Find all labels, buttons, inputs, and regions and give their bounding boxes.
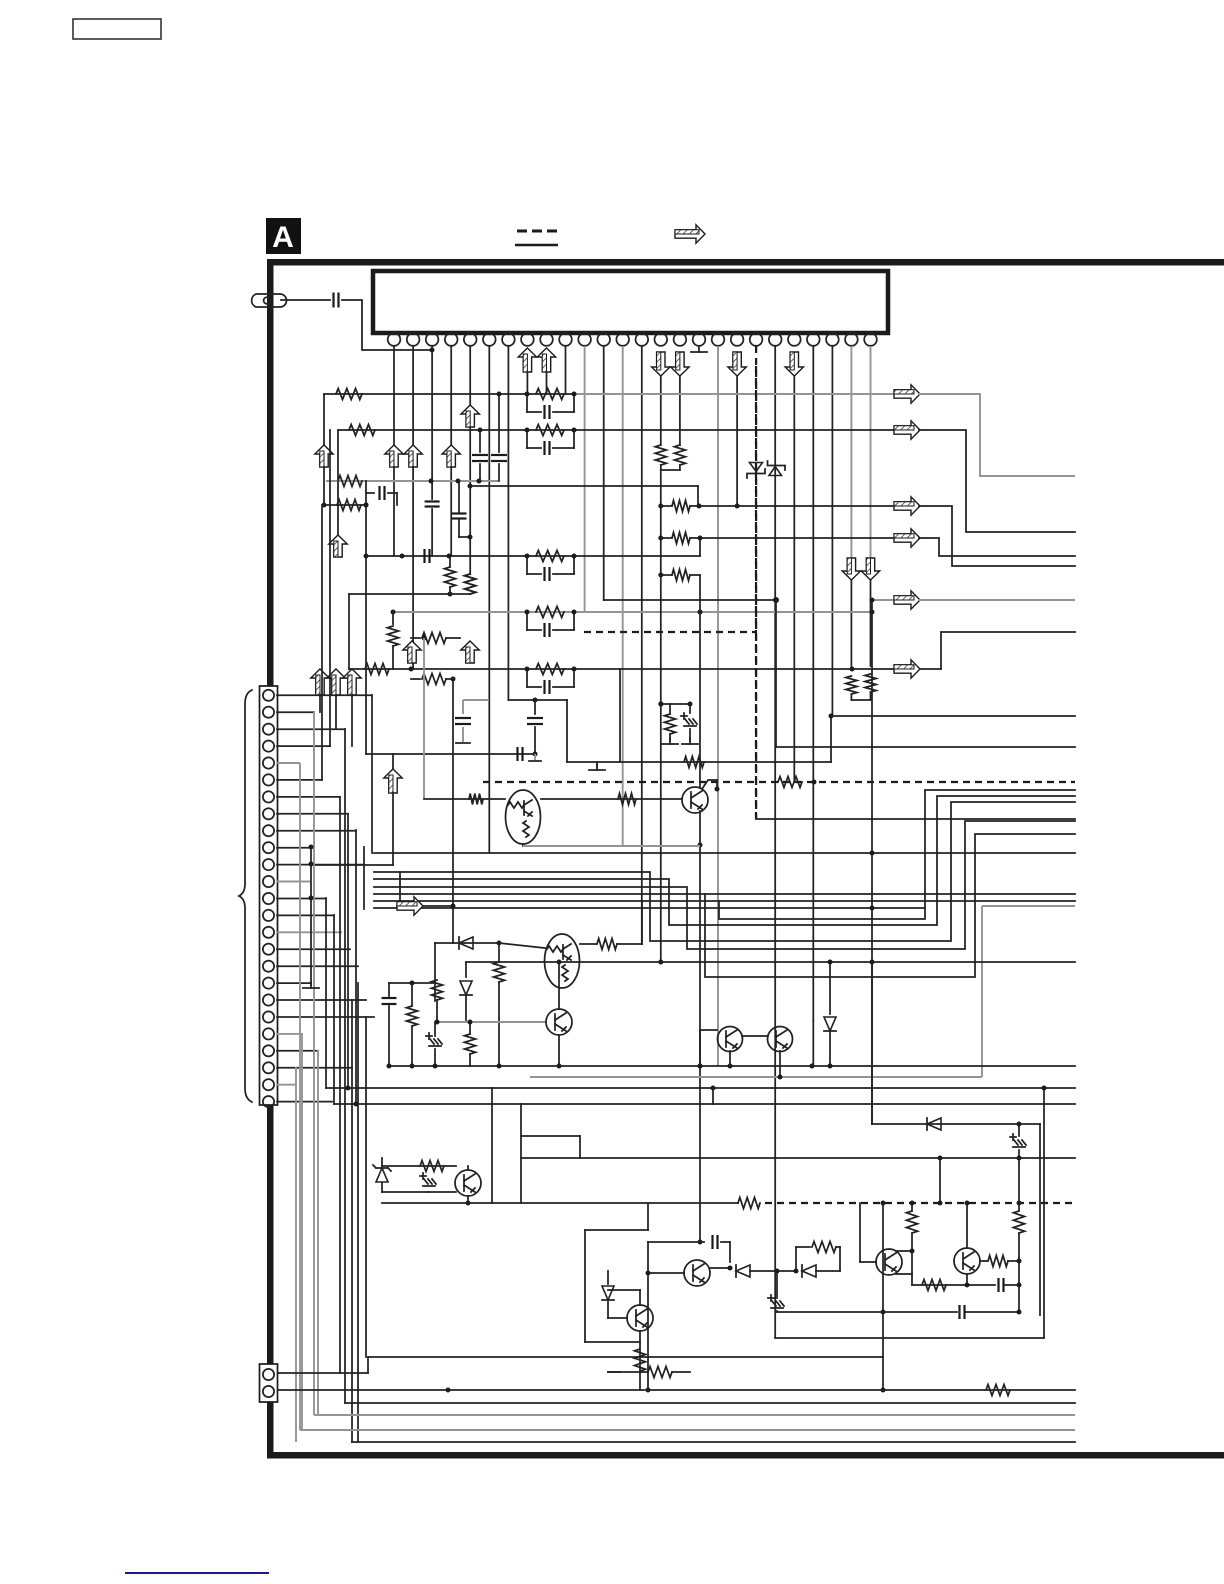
wire pin19 lower <box>736 376 738 506</box>
wire row y1442 <box>352 1441 1075 1443</box>
wire pin10 down <box>565 346 567 394</box>
wire spine x366 <box>365 481 367 754</box>
resistor R-d on row y505 <box>337 500 361 511</box>
wire pin1 down <box>393 346 395 445</box>
zener D-e x382 <box>381 1158 383 1166</box>
wire pin25 down <box>850 346 852 558</box>
wire to Q8 base <box>429 1191 456 1193</box>
resistor-capacitor pair row556 <box>526 556 528 574</box>
wire pin9 lower <box>546 372 548 394</box>
wire Q10 emitter <box>639 1331 641 1342</box>
capacitor C-k row y1312 <box>883 1311 957 1313</box>
signal arrow right y906 mid <box>399 872 401 906</box>
wire Q6 emitter <box>896 1273 912 1275</box>
wire y669 riser to y632 edge <box>941 632 1075 669</box>
wire cap bottom bar <box>456 742 470 744</box>
wire row y962 <box>700 961 1075 963</box>
wire Q10 top <box>639 1290 641 1305</box>
capacitor C-f on row y754 <box>516 747 518 761</box>
wire R-e bottom lead <box>449 587 451 594</box>
wire row y1312 mid <box>777 1311 883 1313</box>
wire row y669 <box>349 668 941 670</box>
resistor R-q Q2 out <box>597 939 617 950</box>
wire bus y1066 <box>389 1065 1075 1067</box>
wire row y1124 <box>872 1123 1040 1125</box>
zener diode D-z1 on dashed line <box>750 463 763 472</box>
thick wire y700 from pin7 <box>508 699 567 701</box>
capacitor C-m <box>648 1241 704 1243</box>
legend dashed-line sample <box>517 230 557 233</box>
wire Q6 base <box>860 1261 876 1263</box>
wire Q2 base <box>499 943 545 948</box>
wire row y1136 <box>521 1135 580 1137</box>
left connector CN1 pin circles <box>263 690 274 1107</box>
wire pin4 lower <box>450 467 452 556</box>
signal arrow up pin2 line <box>404 445 422 467</box>
wire x812 to bus <box>812 1021 814 1066</box>
resistor R-z x640 <box>635 1349 646 1371</box>
resistor ladder row y538 <box>658 536 663 541</box>
wire pin1 lower <box>393 467 395 556</box>
wire base row y799 left <box>424 798 505 800</box>
wire fan riser x340 down <box>339 797 341 1373</box>
wire Q10 down <box>639 1342 641 1372</box>
wire row y1403 <box>345 1402 1075 1404</box>
diode D-h x608 <box>607 1271 609 1284</box>
wire row y943 <box>453 942 499 944</box>
diode D-a row y943 <box>459 937 473 949</box>
diode D-c x830 <box>829 962 831 1014</box>
wire Q7 emitter <box>966 1274 968 1285</box>
resistor R-ab row y1390 <box>986 1385 1010 1396</box>
wire fan riser x296 <box>295 1067 297 1442</box>
wire Q3 top <box>558 962 560 1009</box>
wire gray row y481 <box>326 480 499 482</box>
wire pin3 lower <box>431 509 433 556</box>
resistor R-x <box>796 1246 810 1248</box>
wire pin5 mid <box>469 427 471 574</box>
wire Q8 emitter <box>467 1196 469 1203</box>
wire row y754 <box>366 753 535 755</box>
wire row y1104 <box>334 1103 1075 1105</box>
wire x642 riser <box>641 901 643 944</box>
wire pin26 down <box>870 346 872 558</box>
wire row y1373 <box>277 1372 368 1374</box>
wire y506 elbow to edge <box>919 506 1075 566</box>
wire pin3 down <box>431 346 433 499</box>
resistor R-m1 base row <box>469 794 483 805</box>
wire Q4 base from bus <box>700 1029 717 1031</box>
wire x580 <box>579 1136 581 1158</box>
transistor Q3 <box>546 1009 572 1035</box>
bottom connector CN2 pins <box>263 1369 274 1397</box>
wire fan riser x352 down <box>351 1000 353 1442</box>
wire pin6 down <box>488 346 490 852</box>
wire pin18 down <box>717 346 719 1066</box>
resistor on pin25 line <box>846 676 857 694</box>
wire y430 to edge <box>919 430 1075 532</box>
wire fan riser x358 down <box>357 983 359 1442</box>
thick wire x776 vertical <box>775 600 777 747</box>
wire fan riser x318 <box>317 1050 319 1416</box>
wire fan riser x334 down <box>333 915 335 1104</box>
wire pin25 mid <box>850 580 852 668</box>
capacitor C-g x389 <box>388 983 390 996</box>
wire Q2 out <box>580 943 596 945</box>
signal arrow up x324 <box>315 445 333 467</box>
signal arrow right y669 <box>894 660 920 678</box>
digital transistor Q2 (oval) <box>545 934 580 988</box>
electrolytic capacitor x690 <box>681 713 697 726</box>
wire base row y799 right <box>541 798 682 800</box>
wire R-z foot <box>639 1371 641 1390</box>
wire fan riser x366 down <box>365 1017 367 1357</box>
fan risers up <box>371 695 373 853</box>
wire fan riser x330 up <box>329 430 331 746</box>
mini cluster R+C to ground <box>661 703 690 705</box>
transistor Q8 <box>455 1170 481 1196</box>
capacitor chain x535 <box>534 700 536 714</box>
svg-text:A: A <box>272 221 294 254</box>
transistor Q7 <box>954 1248 980 1274</box>
wire x368 riser <box>367 1357 369 1373</box>
input jack J1 <box>252 294 287 307</box>
signal arrow down pin16 <box>671 352 689 376</box>
wire row y1285 <box>912 1284 995 1286</box>
ground fan x311 <box>310 982 312 988</box>
wire chain1 y872-941-802 <box>374 802 1075 941</box>
wire oval bottom lead <box>522 844 524 846</box>
wire ecap bottom <box>689 729 691 741</box>
wire gray x982 <box>981 906 983 1077</box>
wire row y1390 <box>277 1389 1075 1391</box>
electrolytic C-l x429 <box>420 1173 436 1186</box>
wire gray row y846 <box>523 845 700 847</box>
wire pin16 mid <box>679 376 681 445</box>
wire pin26 mid <box>870 580 872 666</box>
wire pin8 lower <box>526 372 528 394</box>
wire x324 lower <box>323 467 325 505</box>
resistor R-b on bus y430 <box>349 425 375 436</box>
wire Q8 top <box>467 1166 469 1170</box>
wire x756 corner to right <box>756 818 1075 820</box>
wire row y853 <box>374 852 1075 854</box>
wire pin24 down <box>831 346 833 716</box>
resistor-capacitor pair row612 <box>526 612 528 630</box>
ground on y762 <box>596 762 598 767</box>
IC block (main jungle IC) <box>373 271 888 333</box>
transistor Q9 <box>684 1260 710 1286</box>
wire Q9 base <box>648 1272 684 1274</box>
wire pin12 down (thick) <box>603 346 605 600</box>
wire pin20 dashed <box>755 346 757 819</box>
resistor-capacitor pair row430 <box>526 430 528 448</box>
wire left vert x324 <box>323 394 325 445</box>
wire row y1088 <box>326 1087 1075 1089</box>
transistor Q10 <box>627 1305 653 1331</box>
wire x872 segment <box>871 600 873 1124</box>
page border frame (left rule) <box>267 259 274 1458</box>
legend solid underline <box>515 244 558 247</box>
wire arrow1 stub <box>319 695 321 712</box>
signal arrow up x393 lower <box>392 754 394 770</box>
wire y394 to edge <box>919 394 1075 476</box>
lower left cluster <box>382 1165 456 1167</box>
wire R-f join <box>450 593 470 595</box>
wire C-j lead <box>1005 1284 1019 1286</box>
capacitor C-j row y1285 <box>997 1278 999 1292</box>
left connector pin wires <box>277 694 372 696</box>
wire pin16 join <box>679 465 681 470</box>
three up arrows above connector <box>311 669 329 695</box>
wire pin13 down <box>622 346 624 846</box>
resistor R-n x499 <box>494 962 505 982</box>
wire gray y600 from x872 <box>872 599 896 601</box>
capacitor on pin3 line <box>425 500 440 502</box>
wire x1040 drop <box>1039 1124 1041 1315</box>
wire Q7 top <box>966 1203 968 1248</box>
wire row y1430 gray <box>300 1429 1075 1431</box>
diode D-d row y1124 <box>927 1118 941 1130</box>
zener diode D-z2 on thick line <box>769 467 782 476</box>
wire y716 to edge <box>831 715 1075 717</box>
page border frame (top rule) <box>267 259 1224 266</box>
transistor Q4 <box>718 1027 743 1052</box>
wire gray row y612 <box>393 611 872 613</box>
resistor R-s x912 <box>911 1203 913 1210</box>
resistor R-o x412 <box>411 983 413 1006</box>
wire x872 extension <box>871 962 873 1124</box>
thick wire y600 horizontal <box>604 599 776 601</box>
resistor R-m2 base Q1 <box>618 794 636 805</box>
wire x567 drop <box>566 700 568 762</box>
wire pin2 lower <box>412 467 414 669</box>
wire Q4 emitter <box>729 1051 731 1066</box>
dashed wire row y632 <box>584 631 756 633</box>
wire chain2 y879-925-796 <box>374 796 1075 925</box>
signal arrow up x412 <box>403 641 421 663</box>
wire row y486 <box>470 485 698 487</box>
wire left vert x338 <box>337 430 339 535</box>
wire y538 elbow to edge <box>919 538 1075 556</box>
wire chain5 y901-919-790 <box>374 900 1075 902</box>
wire row y1158 <box>521 1157 1075 1159</box>
signal arrow right y394 <box>894 385 920 403</box>
wire bus y394 gray part <box>574 393 900 395</box>
wire pin5 down <box>469 346 471 405</box>
wire x700 long <box>699 575 701 788</box>
dashed wire column x756 lower <box>755 632 757 819</box>
bottom connector CN2 body <box>260 1364 278 1402</box>
resistor on pin5 line <box>465 574 476 594</box>
wire arrow2 stub <box>335 695 337 729</box>
electrolytic C-n x777 <box>768 1295 784 1308</box>
signal arrow right y600 <box>894 591 920 609</box>
wire pin4 down <box>450 346 452 445</box>
resistor R-y x648 upper <box>647 1203 649 1230</box>
wire pin11 down <box>584 346 586 612</box>
transistor Q5 <box>768 1027 793 1052</box>
wire y506 to arrow <box>699 505 896 507</box>
wire fan riser x364 down <box>363 847 365 909</box>
wire x831 riser <box>830 716 832 762</box>
wire bus y430 <box>338 429 900 431</box>
resistor R-a on bus y394 <box>336 389 362 400</box>
resistor on pin16 line <box>674 445 685 465</box>
wire pin7 down (thick) <box>507 346 509 700</box>
wire fan riser x311 <box>310 847 312 985</box>
diode D-g <box>802 1265 816 1277</box>
top-left revision box <box>73 19 161 39</box>
transistor Q1 <box>682 787 708 813</box>
wire arrow3 stub <box>351 695 353 746</box>
wire Q3 emitter <box>558 1035 560 1066</box>
wire fan riser x356 down <box>355 830 357 1104</box>
wire Q9 collector-diode <box>710 1267 730 1269</box>
signal arrow down pin26 <box>861 558 879 580</box>
wire pin21 down (thick) <box>774 346 776 1338</box>
left connector CN1 brace <box>239 690 252 1102</box>
legend signal-flow arrow <box>675 225 705 243</box>
wire x435 drop <box>435 942 453 944</box>
wire bar x535 <box>529 760 541 762</box>
thick wire y1338 horizontal <box>775 1337 1044 1339</box>
signal arrow right y538 <box>894 529 920 547</box>
wire x700 riser 538-556 <box>699 538 701 556</box>
dashed wire row y782 <box>483 781 1075 783</box>
resistor-capacitor pair row669 <box>526 669 528 687</box>
wire y600 to edge <box>919 599 1075 601</box>
resistor R-v row y1285 <box>922 1280 946 1291</box>
footer blue rule <box>125 1572 269 1574</box>
signal arrow up pin8 <box>518 348 536 372</box>
wire chain4 y894-977-834 <box>374 893 1075 895</box>
thick wire x1044 vertical <box>1043 1088 1045 1338</box>
signal arrow up x470 <box>461 641 479 663</box>
resistor R-t x1019 <box>1018 1158 1020 1203</box>
signal arrow right y506 <box>894 497 920 515</box>
capacitor gray x463 <box>463 699 489 701</box>
wire bus y394 <box>324 393 574 395</box>
wire x453 long <box>452 679 454 943</box>
resistor R-l on y762 <box>684 757 704 768</box>
row y638 resistor R-h <box>411 637 420 639</box>
wire row y983 <box>389 982 435 984</box>
transistor Q6 <box>876 1249 902 1275</box>
wire y486 elbow down <box>697 486 699 506</box>
capacitor C-d row y493 <box>366 492 374 494</box>
wire joining pin15-16 resistors <box>661 469 680 471</box>
wire gray row y1022 <box>435 1021 546 1023</box>
wire row y1415 gray <box>314 1414 1075 1416</box>
signal arrow right y430 <box>894 421 920 439</box>
wire y762 row <box>567 761 831 763</box>
diode D-b x466 <box>465 962 467 977</box>
section label A (black box) <box>266 218 301 254</box>
wire R-q to riser <box>617 943 642 945</box>
resistor R-e x450 <box>445 567 456 587</box>
wire pin22 lower <box>793 376 795 782</box>
wire fan riser x300 <box>299 763 301 1430</box>
signal arrow up x338 <box>329 535 347 557</box>
signal arrow up pin5 line <box>461 405 479 427</box>
digital transistor Q2b (oval) <box>506 790 541 844</box>
diode D-f <box>736 1265 750 1277</box>
wire x535 stub <box>534 754 536 760</box>
wire x883 <box>882 1203 884 1390</box>
resistor ladder row y575 <box>658 573 663 578</box>
signal arrow down pin22 <box>785 352 803 376</box>
wire gray row y906 <box>982 905 1075 907</box>
wire row y556 <box>366 555 700 557</box>
resistor R-f x470 <box>465 574 476 594</box>
wire Q1 collector <box>702 780 717 789</box>
signal arrow down pin15 <box>652 352 670 376</box>
signal arrow down pin25 <box>842 558 860 580</box>
resistor on pin15 line <box>655 445 666 465</box>
wire chain3 y887-949-821 <box>374 821 1075 949</box>
dashed wire row y1203 <box>765 1202 1075 1204</box>
resistor R-k on dashed row <box>778 777 802 788</box>
wire R-e top lead <box>449 556 451 567</box>
wire row y1357 <box>368 1356 883 1358</box>
resistor ladder row y506 <box>658 504 663 509</box>
wire fan riser x314 <box>313 712 315 1415</box>
wire fan riser x348 down <box>347 814 349 1088</box>
wire capacitor to node <box>342 300 432 350</box>
wire joining pin25-26 <box>851 699 870 701</box>
wire fan riser x322 up <box>321 505 323 780</box>
wire x585 top <box>585 1229 648 1231</box>
resistor R-w row y1203 <box>738 1198 760 1209</box>
wire pin26 foot <box>870 692 872 700</box>
row y679 resistor R-j <box>411 678 420 680</box>
wire fan riser x326 down <box>325 898 327 1088</box>
wire y538 to arrow <box>700 537 896 539</box>
thick wire y747 to edge <box>776 746 1075 748</box>
wire row y1203 left <box>382 1202 492 1204</box>
wire Q1 collector tie <box>716 780 718 789</box>
wire row y962 left <box>466 961 700 963</box>
signal arrow up pin9 <box>537 348 555 372</box>
wire x499 drop <box>498 943 500 962</box>
IC pin circles <box>388 333 877 346</box>
resistor R-aa y1372 <box>608 1371 620 1373</box>
wire pin15 mid <box>660 376 662 445</box>
wire row y908 <box>374 907 925 909</box>
resistor on pin26 line <box>865 674 876 692</box>
wire row y1203 solid <box>492 1202 738 1204</box>
resistor R-p x437 <box>432 980 443 1000</box>
wire pin15 lower <box>660 465 662 575</box>
wire x648 <box>647 1242 649 1390</box>
wire x713 drop <box>712 1088 714 1104</box>
resistor R-r x470 <box>469 1022 471 1034</box>
signal arrow up pin1 line <box>385 445 403 467</box>
capacitor chain x480 from row430 <box>479 430 481 452</box>
wire pin25 foot <box>850 694 852 700</box>
wire Q4-Q5 join <box>742 1035 768 1037</box>
signal arrow up pin4 line <box>442 445 460 467</box>
wire gray riser x424 <box>423 638 425 799</box>
wire fan riser x302 <box>301 1033 303 1430</box>
electrolytic C-i x1019 <box>1018 1124 1020 1136</box>
wire ecap top lead <box>689 704 691 713</box>
wire pin14 down <box>641 346 643 944</box>
wire x1019 lower <box>1018 1258 1020 1312</box>
wire pin2 down <box>412 346 414 445</box>
resistor R-g x393 <box>392 612 394 624</box>
